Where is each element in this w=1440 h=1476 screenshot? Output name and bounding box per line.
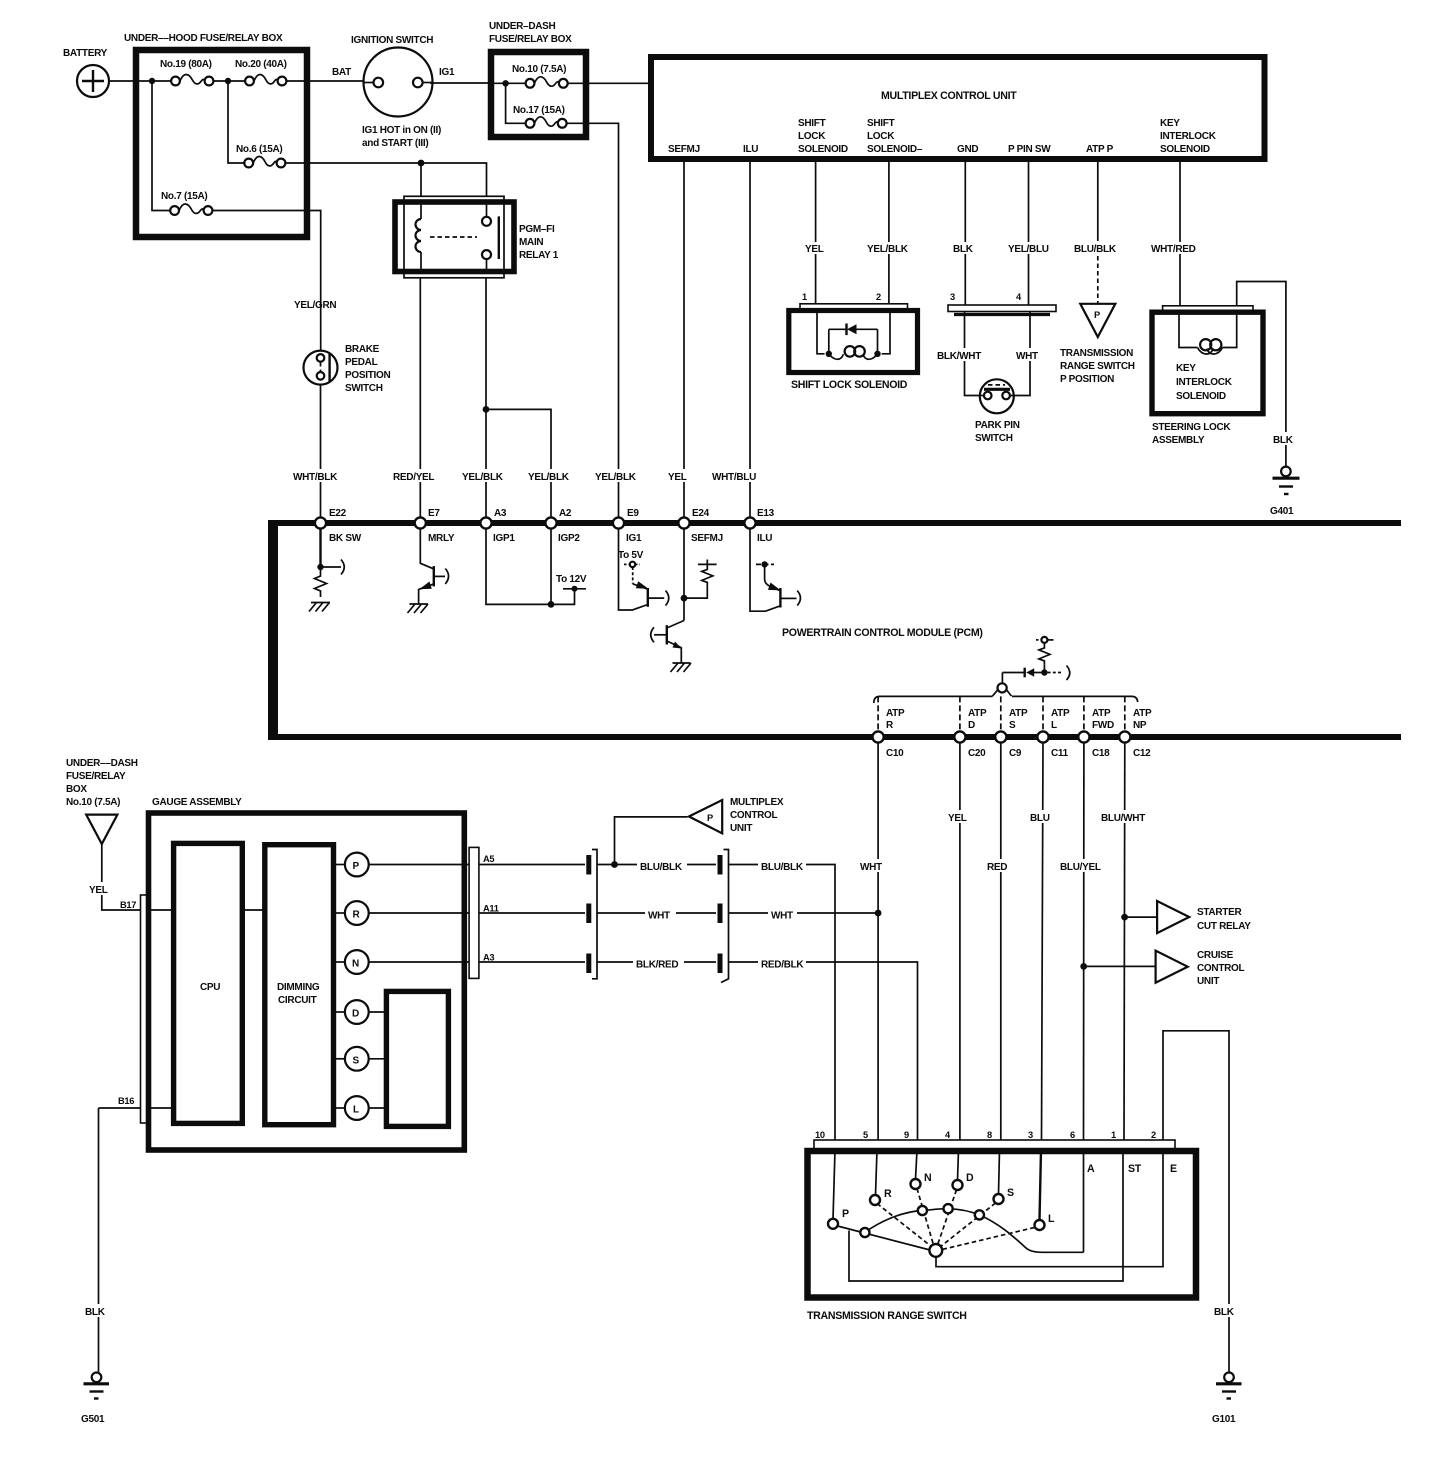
svg-text:YEL/BLK: YEL/BLK [528,472,570,483]
ground G101 [1212,1373,1242,1426]
shift lock solenoid [789,304,918,391]
svg-text:D: D [352,1009,359,1020]
svg-text:S: S [353,1055,360,1066]
pin E22 BK SW [315,508,362,544]
svg-text:C18: C18 [1092,748,1110,759]
E22 internal: resistor to ground [309,528,344,612]
wire WHT joins pin C10 wire [797,912,878,914]
svg-text:C20: C20 [968,748,986,759]
svg-text:A11: A11 [483,904,499,914]
wire ATP S to pin C9 [1000,696,1002,732]
ATP pull-up: switch, resistor and diode [992,637,1069,696]
svg-text:G101: G101 [1212,1414,1236,1425]
wire junction down to fuse No.7 [152,81,170,211]
svg-text:CONTROL: CONTROL [730,810,778,821]
P contact [828,1208,849,1229]
indicator S [334,1047,387,1071]
svg-text:ASSEMBLY: ASSEMBLY [1152,435,1205,446]
svg-text:WHT/BLU: WHT/BLU [712,472,756,483]
dashed radial pivot to D [938,1190,957,1245]
svg-text:CIRCUIT: CIRCUIT [278,995,317,1006]
pin E7 MRLY [415,508,455,544]
wire YEL from fuse to gauge B17 [88,844,141,910]
svg-text:SHIFT LOCK SOLENOID: SHIFT LOCK SOLENOID [791,379,908,391]
svg-text:A3: A3 [494,508,507,519]
pin A2 IGP2 [545,508,580,544]
wire row3 to connector 2 [684,961,716,963]
svg-text:INTERLOCK: INTERLOCK [1160,131,1217,142]
svg-text:No.19 (80A): No.19 (80A) [160,59,212,70]
wire ATP P (BLU/BLK) [1073,159,1121,304]
inline connector 2 pad row1 [718,855,723,875]
gauge left connector bar [141,895,148,1123]
svg-text:BLK: BLK [1214,1307,1235,1318]
node junction starter cut relay [1121,914,1128,921]
svg-text:S: S [1007,1187,1014,1199]
wire label YEL/BLK at A2 [527,469,573,483]
svg-text:BLK: BLK [953,244,974,255]
gauge inner indicator box [386,991,448,1126]
multiplex control unit triangle [689,797,784,834]
wire inside under-dash box to fuse10 [494,82,526,84]
svg-text:BLU/BLK: BLU/BLK [761,862,804,873]
svg-text:TRANSMISSION: TRANSMISSION [1060,348,1133,359]
svg-text:B16: B16 [118,1096,134,1106]
wire ATP D to pin C20 [959,696,961,732]
E24 internal: pull-up resistor and transistor to ground [651,528,717,672]
gauge assembly box [149,797,465,1150]
svg-text:1: 1 [1111,1130,1116,1140]
CPU box [174,843,243,1123]
svg-text:KEY: KEY [1176,363,1196,374]
wire relay coil to PCM pin E7 [419,278,421,518]
svg-text:and START (III): and START (III) [362,138,428,149]
wire pin4 to park switch [1010,312,1030,396]
svg-text:ILU: ILU [757,533,772,544]
svg-text:No.20 (40A): No.20 (40A) [235,59,287,70]
wire C9 (RED) down to range switch pin 8 [986,743,1014,1140]
svg-text:R: R [353,910,361,921]
under-hood fuse/relay box [124,33,307,237]
svg-text:E7: E7 [428,508,440,519]
svg-text:BLK/WHT: BLK/WHT [937,351,981,362]
wire fuse7 output to box edge [212,210,307,212]
svg-text:PEDAL: PEDAL [345,357,378,368]
svg-text:MULTIPLEX CONTROL UNIT: MULTIPLEX CONTROL UNIT [881,90,1017,102]
svg-text:IG1: IG1 [439,67,455,78]
wire ATP L to pin C11 [1042,696,1044,732]
pin E9 IG1 [613,508,642,544]
svg-text:ATP: ATP [886,708,905,719]
svg-text:MULTIPLEX: MULTIPLEX [730,797,784,808]
svg-text:BOX: BOX [66,784,87,795]
svg-text:WHT: WHT [771,911,793,922]
svg-text:CUT RELAY: CUT RELAY [1197,921,1251,932]
wire No.7 feed down to brake pedal switch [307,211,321,352]
svg-text:No.10 (7.5A): No.10 (7.5A) [66,797,120,808]
E13 internal: transistor [750,528,800,611]
wire RED/BLK to range switch pin 9 [806,962,918,1140]
svg-text:L: L [1048,1213,1055,1225]
indicator D [334,1000,387,1024]
svg-text:RELAY 1: RELAY 1 [519,250,559,261]
svg-text:8: 8 [987,1130,992,1140]
wire ATP NP to pin C12 [1124,696,1126,732]
svg-text:C12: C12 [1133,748,1151,759]
arc contact S line [975,1210,984,1219]
wire to starter cut relay [1125,916,1156,918]
svg-text:E24: E24 [692,508,710,519]
wire C20 (YEL) down to range switch pin 4 [946,743,974,1140]
wire pin8 to S contact [999,1150,1000,1194]
wire branch to PCM pin A2 [486,409,551,517]
svg-text:G401: G401 [1270,506,1294,517]
wire fuse20 output to box edge [286,80,307,82]
wire junction up to multiplex triangle [615,817,688,865]
svg-text:A5: A5 [483,854,494,864]
svg-text:IG1: IG1 [626,533,642,544]
svg-text:SHIFT: SHIFT [798,118,826,129]
multiplex control unit box [651,57,1265,159]
wire fuse6 output to box edge [285,162,307,164]
svg-text:C9: C9 [1009,748,1022,759]
svg-text:PGM–FI: PGM–FI [519,224,555,235]
node junction at fuse 20 input [225,78,231,84]
svg-text:MRLY: MRLY [428,533,455,544]
svg-text:FUSE/RELAY BOX: FUSE/RELAY BOX [489,34,572,45]
gauge right connector bar [469,847,499,978]
wire branch down to relay coil [420,163,422,197]
pin E13 ILU [744,508,774,544]
svg-text:1: 1 [802,292,807,302]
wire BLU/BLK to multiplex triangle junction [597,864,637,866]
wire battery to under-hood box [109,80,137,82]
dashed radial pivot to L [942,1228,1035,1250]
L contact [1035,1213,1056,1230]
svg-text:BLK: BLK [1273,435,1294,446]
indicator L [334,1096,387,1120]
svg-text:YEL/GRN: YEL/GRN [294,300,336,311]
svg-text:WHT: WHT [860,862,882,873]
svg-text:P: P [842,1208,849,1220]
svg-text:2: 2 [876,292,881,302]
transmission range switch box [808,1151,1197,1298]
wire label WHT/BLU at E13 [711,469,763,483]
wire BAT to ignition switch [307,67,364,81]
wire row3 after connector 2 [729,961,759,963]
arc contact D line [944,1204,953,1213]
wire No.6 feed to PGM-FI relay [307,163,487,197]
wire fuse17 output to corner then down to PCM pin E9 [567,123,619,517]
node junction WHT gauge R row [875,910,882,917]
svg-text:YEL: YEL [805,244,824,255]
label BLK at G101 [1213,1304,1241,1318]
wire CPU to dimming circuit [242,909,265,911]
svg-text:To 5V: To 5V [618,550,644,561]
svg-text:LOCK: LOCK [798,131,826,142]
svg-text:PARK PIN: PARK PIN [975,420,1020,431]
svg-text:ATP: ATP [1009,708,1028,719]
cruise control unit [1156,950,1245,987]
park pin switch connector [948,305,1056,315]
wire label WHT/BLK [292,469,344,483]
wire row3 to label [597,961,633,963]
brake pedal position switch [294,300,390,394]
wire KEY INTERLOCK (WHT/RED) [1150,159,1200,306]
svg-text:YEL: YEL [89,885,108,896]
svg-text:BK SW: BK SW [329,533,362,544]
svg-text:ILU: ILU [743,144,758,155]
pin C18 ATP FWD [1078,702,1123,759]
svg-text:S: S [1009,720,1016,731]
svg-text:C11: C11 [1051,748,1069,759]
pivot contact [929,1244,942,1257]
inline connector 1 bracket [592,850,597,979]
wire A5 row BLU/BLK to connector [479,864,585,866]
wire to cruise control unit [1084,965,1155,967]
svg-text:SOLENOID: SOLENOID [798,144,848,155]
wire pin3 to park switch [965,312,984,396]
svg-text:UNIT: UNIT [730,823,752,834]
pin C12 ATP NP [1119,702,1162,759]
svg-text:A2: A2 [559,508,572,519]
wire ATP FWD to pin C18 [1083,696,1085,732]
wire ATP R to pin C10 [877,696,879,732]
svg-text:FWD: FWD [1092,720,1114,731]
wire range switch pin 2 to ground G101 [1163,1031,1229,1372]
S contact [994,1187,1015,1204]
svg-text:ST: ST [1128,1163,1142,1175]
wire SEFMJ multiplex to PCM pin E24 [683,159,685,518]
svg-text:RANGE SWITCH: RANGE SWITCH [1060,361,1135,372]
svg-text:YEL: YEL [948,813,967,824]
svg-text:WHT: WHT [648,911,670,922]
ground G501 [81,1373,109,1426]
fuse No.20 (40A) [235,59,287,85]
node junction on No.6 feed [418,160,425,167]
svg-text:SOLENOID: SOLENOID [1176,391,1226,402]
wire IG1 to under-dash box [430,67,492,83]
wire row2 to connector 2 [676,912,716,914]
A3/A2 internal: join to 12V [486,528,587,608]
svg-text:YEL/BLK: YEL/BLK [867,244,909,255]
svg-text:GND: GND [957,144,978,155]
inline connector 1 pad row A5 [586,855,591,875]
indicator P [334,853,470,877]
wire shift lock solenoid - (YEL/BLK) [866,159,912,304]
N contact [911,1172,932,1189]
svg-text:N: N [352,959,359,970]
wire pin9 to N contact [916,1150,918,1179]
park pin switch [975,379,1020,444]
WHT label [1015,348,1045,362]
svg-text:POWERTRAIN CONTROL MODULE (PCM: POWERTRAIN CONTROL MODULE (PCM) [782,627,983,639]
wire A11 row WHT to connector [479,912,585,914]
inline connector 1 pad row A11 [586,904,591,924]
svg-text:TRANSMISSION RANGE SWITCH: TRANSMISSION RANGE SWITCH [807,1310,967,1322]
svg-text:WHT/RED: WHT/RED [1151,244,1196,255]
wire label YEL/BLK at E9 [594,469,640,483]
svg-text:WHT: WHT [1016,351,1038,362]
svg-text:No.6 (15A): No.6 (15A) [236,144,282,155]
svg-text:BAT: BAT [332,67,351,78]
svg-text:IGP1: IGP1 [493,533,515,544]
svg-text:A3: A3 [483,953,494,963]
svg-text:UNIT: UNIT [1197,976,1219,987]
svg-text:R: R [886,720,894,731]
wire C18 (BLU/YEL) down to range switch pin 6 [1059,743,1107,1140]
wire row1 to connector 2 [687,864,716,866]
pin E24 SEFMJ [678,508,722,544]
inline connector 2 pad row3 [718,954,723,974]
wire GND (BLK) [950,159,977,305]
wire label RED/YEL [392,469,440,483]
PGM-FI main relay 1 [395,196,559,277]
svg-text:SHIFT: SHIFT [867,118,895,129]
svg-text:CRUISE: CRUISE [1197,950,1234,961]
ground G401 [1270,467,1300,517]
wire label YEL at E24 [667,469,693,483]
pin A3 IGP1 [480,508,515,544]
E9 internal: transistor with 5V reference [618,528,669,610]
wire row1 after connector 2 [729,864,759,866]
dimming circuit box [265,845,334,1125]
E7 internal: transistor to ground [408,528,449,613]
svg-text:YEL: YEL [668,472,687,483]
wire pin10 to P contact [833,1150,835,1219]
svg-text:3: 3 [1028,1130,1033,1140]
svg-text:IG1 HOT in ON (II): IG1 HOT in ON (II) [362,125,441,136]
BLK/WHT label [936,348,988,362]
svg-text:E9: E9 [627,508,639,519]
wire C10 (WHT) down to range switch pin 5 [859,743,889,1140]
svg-text:P: P [1094,310,1100,320]
node junction cruise control [1080,963,1087,970]
wire junction down to fuse No.6 [228,81,244,163]
svg-text:KEY: KEY [1160,118,1180,129]
wire pin2 E column to pivot [936,1150,1163,1267]
wire B16 from ground riser into CPU [99,1096,175,1108]
svg-text:BLU/BLK: BLU/BLK [640,862,683,873]
wire pin5 to R contact [876,1150,878,1195]
R contact [870,1188,892,1205]
svg-text:10: 10 [815,1130,825,1140]
pin C20 ATP D [954,702,997,759]
wire BLK down to ground G501 [84,1108,110,1372]
svg-text:E: E [1170,1163,1177,1175]
svg-text:G501: G501 [81,1414,105,1425]
svg-text:No.7 (15A): No.7 (15A) [161,191,207,202]
battery [63,48,109,97]
svg-text:E22: E22 [329,508,347,519]
wire ILU multiplex to PCM pin E13 [749,159,751,518]
svg-text:STARTER: STARTER [1197,907,1242,918]
under-dash fuse box reference (No.10) [66,758,138,844]
wire fuse10 output exits box [568,82,586,84]
svg-text:UNDER––DASH: UNDER––DASH [66,758,138,769]
svg-text:INTERLOCK: INTERLOCK [1176,377,1233,388]
fuse No.19 (80A) [160,59,213,85]
svg-text:D: D [966,1172,974,1184]
key interlock solenoid (steering lock assembly) [1152,306,1263,446]
svg-text:BLK: BLK [85,1307,106,1318]
wire fuse10 feed to multiplex control unit [586,82,652,84]
wire brake switch to PCM pin E22 [320,385,322,518]
dashed radial pivot to R [877,1204,932,1248]
transmission range switch P position triangle [1060,304,1135,385]
inline connector 2 pad row2 [718,904,723,924]
svg-text:P POSITION: P POSITION [1060,374,1114,385]
wire P PIN SW (YEL/BLU) [1007,159,1053,305]
dashed radial pivot to N [917,1189,934,1246]
svg-text:STEERING LOCK: STEERING LOCK [1152,422,1231,433]
svg-text:R: R [884,1188,892,1200]
node junction at fuse 19 input [149,78,155,84]
svg-text:DIMMING: DIMMING [277,982,320,993]
svg-text:MAIN: MAIN [519,237,543,248]
powertrain control module PCM top bus [268,520,1401,526]
wire pin4 to D contact [958,1150,959,1180]
fuse No.6 (15A) [236,144,285,167]
svg-text:3: 3 [950,292,955,302]
svg-text:ATP: ATP [968,708,987,719]
svg-text:BLU/BLK: BLU/BLK [1074,244,1117,255]
wire shift lock solenoid + (YEL) [802,159,829,304]
wire main feed inside box [139,80,171,82]
svg-text:BLU/YEL: BLU/YEL [1060,862,1101,873]
node junction BLU/BLK [611,861,618,868]
svg-text:No.17 (15A): No.17 (15A) [513,105,565,116]
wire C11 (BLU) down to range switch pin 3 [1028,743,1056,1140]
wire row2 after connector 2 [729,912,769,914]
svg-text:A: A [1087,1163,1095,1175]
svg-text:ATP: ATP [1051,708,1070,719]
svg-text:N: N [924,1172,931,1184]
svg-text:ATP: ATP [1133,708,1152,719]
pin C11 ATP L [1037,702,1080,759]
svg-text:RED: RED [987,862,1007,873]
wire pin6 A column to wiper arc tail [1083,1150,1085,1252]
svg-text:5: 5 [863,1130,868,1140]
svg-text:ATP P: ATP P [1086,144,1114,155]
svg-text:SEFMJ: SEFMJ [668,144,700,155]
svg-text:9: 9 [904,1130,909,1140]
svg-text:SOLENOID–: SOLENOID– [867,144,923,155]
svg-text:POSITION: POSITION [345,370,390,381]
svg-text:BLU/WHT: BLU/WHT [1101,813,1145,824]
ignition switch [351,35,441,149]
svg-text:CPU: CPU [200,982,220,993]
svg-text:C10: C10 [886,748,904,759]
wire C12 (BLU/WHT) down to range switch pin 1 [1100,743,1152,1140]
svg-text:SOLENOID: SOLENOID [1160,144,1210,155]
node junction at fuse10 input [502,80,508,86]
svg-text:NP: NP [1133,720,1147,731]
svg-text:E13: E13 [757,508,775,519]
wire key interlock to ground G401 [1237,282,1300,467]
pin C10 ATP R [873,702,916,759]
svg-text:D: D [968,720,975,731]
indicator R [334,901,470,925]
svg-text:To 12V: To 12V [556,574,587,585]
svg-text:CONTROL: CONTROL [1197,963,1245,974]
wire A3 row BLK/RED to connector [479,961,585,963]
node junction IGP1/IGP2 [483,406,490,413]
svg-text:2: 2 [1151,1130,1156,1140]
selector arc [866,1209,1084,1253]
wiper arm P to pivot [838,1226,931,1250]
under-dash fuse/relay box [489,21,586,137]
